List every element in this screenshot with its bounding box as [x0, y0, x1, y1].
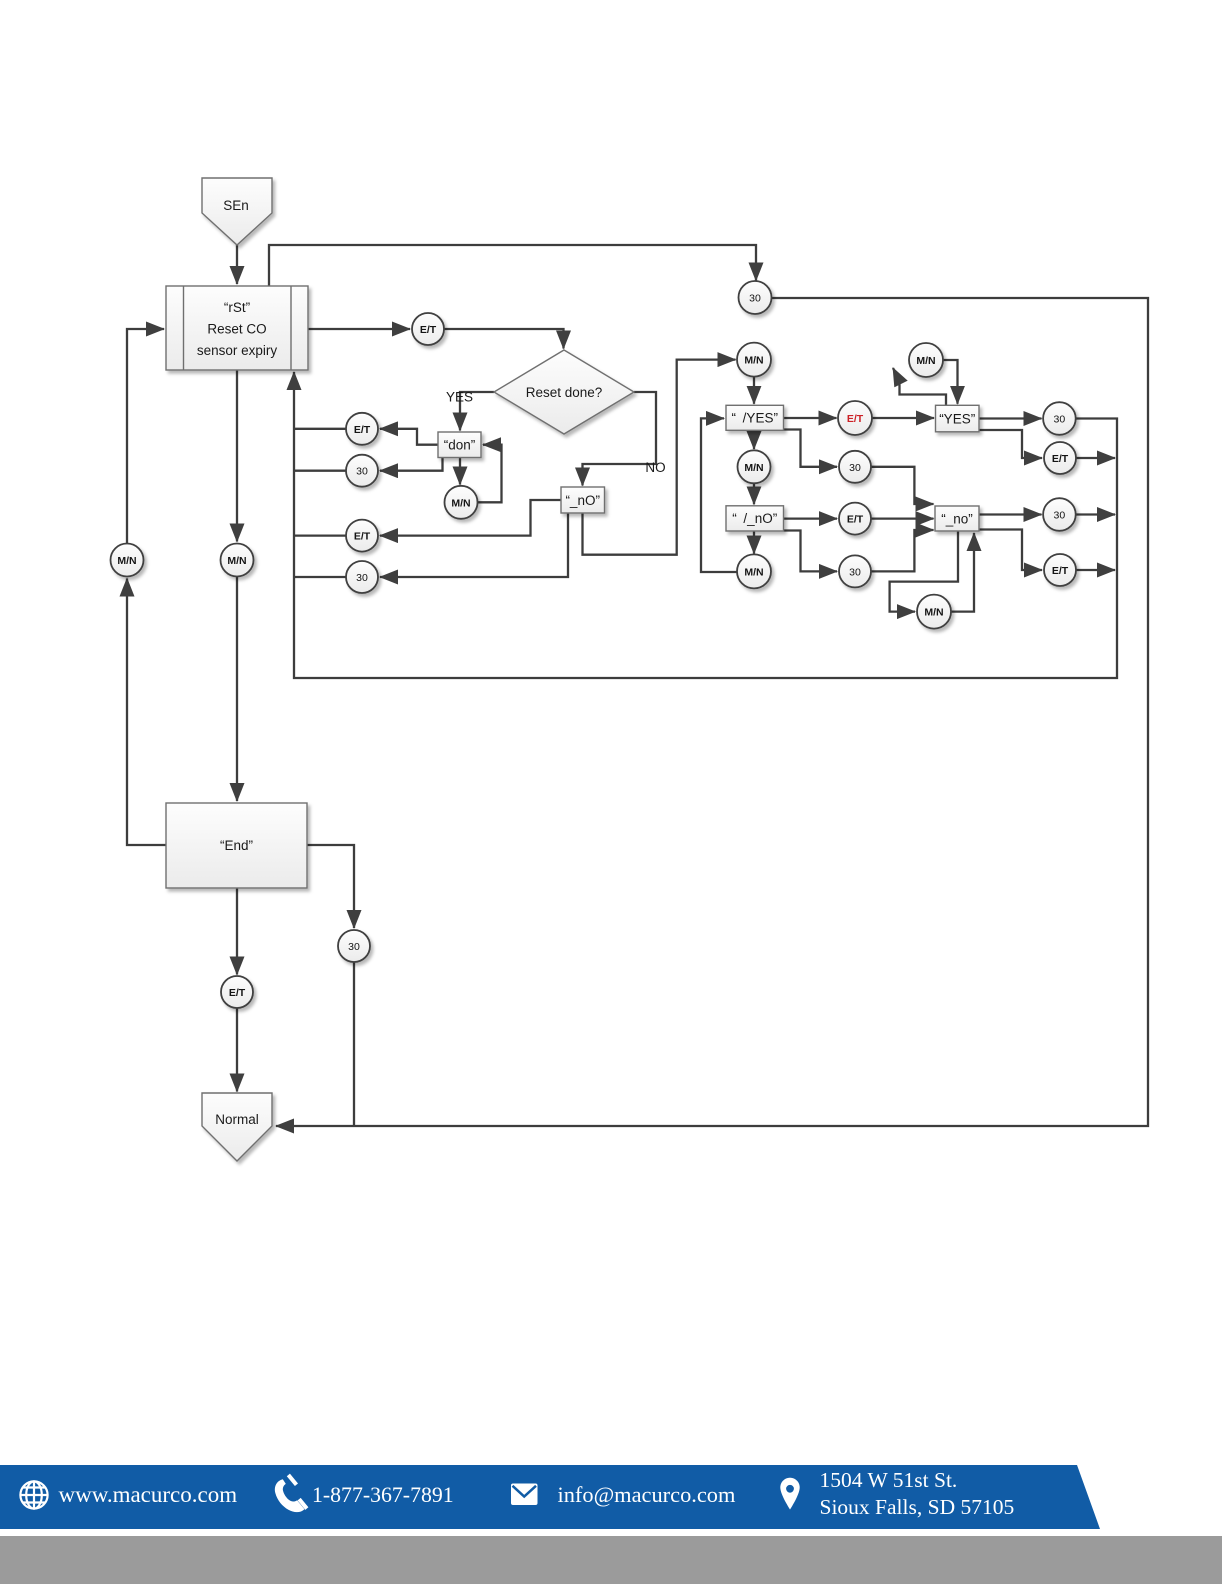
circle 30 below End: [338, 930, 370, 962]
wire YES box top loop to M/N: [893, 368, 946, 405]
circle E/T below End: [221, 976, 253, 1008]
svg-text:30: 30: [1054, 510, 1066, 522]
svg-text:30: 30: [749, 293, 761, 305]
svg-text:“don”: “don”: [444, 438, 476, 453]
wire M/N lower loop up to /YES left: [701, 418, 737, 572]
svg-text:30: 30: [849, 462, 861, 474]
circle E/T after rSt: [412, 313, 444, 345]
envelope icon: [511, 1484, 538, 1506]
svg-text:www.macurco.com: www.macurco.com: [59, 1482, 238, 1507]
box _no: [935, 506, 979, 531]
wire M/N middle column down to End: [236, 577, 238, 801]
svg-text:“_no”: “_no”: [941, 511, 973, 526]
svg-text:sensor expiry: sensor expiry: [197, 343, 278, 358]
decision diamond Reset done?: [494, 350, 634, 434]
location pin icon: [780, 1478, 799, 1510]
wire _no corner to E/T right bottom: [979, 530, 1042, 571]
wire stub rail to E/T upper: [294, 428, 346, 430]
wire YES diamond to don: [460, 392, 494, 431]
wire red E/T to YES box: [872, 417, 934, 419]
circle M/N under don: [445, 486, 478, 519]
svg-text:Sioux Falls, SD 57105: Sioux Falls, SD 57105: [820, 1495, 1015, 1519]
circle M/N above /YES: [737, 343, 771, 377]
svg-text:30: 30: [348, 941, 360, 953]
wire don to E/T upper-left: [380, 429, 438, 445]
svg-text:M/N: M/N: [744, 566, 763, 578]
circle 30 upper left: [346, 455, 378, 487]
svg-text:“YES”: “YES”: [939, 412, 975, 427]
svg-text:info@macurco.com: info@macurco.com: [558, 1482, 736, 1507]
wire stub rail to 30 lower: [294, 576, 346, 578]
circle M/N middle column: [221, 544, 254, 577]
process rSt predefined box: [166, 286, 308, 370]
wire _nO bottom right up to M/N right cluster: [583, 360, 736, 555]
wire _nO to E/T left: [380, 500, 561, 536]
terminator Normal pentagon: [202, 1093, 272, 1161]
circle 30 mid cluster: [839, 451, 871, 483]
circle M/N between /YES and /_nO: [738, 450, 771, 483]
box _nO: [561, 487, 605, 513]
phone icon: [275, 1474, 309, 1513]
wire 30 right along top, down right side, into Normal: [276, 298, 1148, 1126]
wire /_nO corner to 30 lower mid: [784, 531, 838, 572]
circle E/T right cluster bottom: [1044, 554, 1076, 586]
svg-text:30: 30: [356, 466, 368, 478]
svg-text:E/T: E/T: [229, 987, 246, 999]
svg-text:NO: NO: [645, 460, 665, 475]
wire E/T down to Normal: [236, 1008, 238, 1092]
box YES: [936, 405, 980, 432]
svg-text:M/N: M/N: [744, 355, 763, 367]
wire End left up through M/N into rSt: [127, 579, 166, 846]
svg-text:30: 30: [849, 566, 861, 578]
wire M/N loop back to don: [478, 445, 502, 503]
wire stub rail to 30 upper: [294, 470, 346, 472]
wire /YES to red E/T: [784, 417, 837, 419]
circle E/T right cluster: [1044, 442, 1076, 474]
wire E/T mid to _no left: [871, 517, 934, 519]
wire 30 right cluster mid to rail: [1076, 513, 1115, 515]
wire /YES down to M/N mid: [753, 430, 755, 449]
box /YES: [726, 405, 784, 430]
svg-text:“End”: “End”: [220, 838, 253, 853]
wire E/T right cluster to rail: [1076, 457, 1115, 459]
circle 30 lower left: [346, 561, 378, 593]
circle E/T upper left: [346, 413, 378, 445]
wire NO diamond to _nO box: [583, 392, 657, 486]
svg-text:M/N: M/N: [451, 497, 470, 509]
circle M/N under /_nO: [737, 554, 771, 588]
svg-text:E/T: E/T: [847, 413, 864, 425]
circle M/N far left column: [111, 544, 144, 577]
svg-text:M/N: M/N: [916, 355, 935, 367]
svg-text:“_nO”: “_nO”: [565, 493, 600, 508]
wire /_nO down to M/N lower: [753, 531, 755, 554]
svg-text:Normal: Normal: [215, 1112, 259, 1127]
svg-text:E/T: E/T: [1052, 453, 1069, 465]
svg-text:E/T: E/T: [420, 324, 437, 336]
svg-text:SEn: SEn: [223, 198, 249, 213]
svg-text:E/T: E/T: [847, 514, 864, 526]
wire 30 lower mid to _no left bottom: [871, 530, 934, 571]
svg-text:“rSt”: “rSt”: [224, 300, 250, 315]
wire 30 down to Normal horizontal junction: [353, 962, 355, 1127]
circle E/T lower left: [346, 520, 378, 552]
circle E/T mid cluster: [839, 503, 871, 535]
wire /_nO to E/T mid: [784, 517, 838, 519]
wire rSt top loop to 30 circle top right: [269, 245, 756, 287]
circle 30 right cluster top: [1043, 402, 1076, 435]
svg-text:YES: YES: [446, 390, 473, 405]
wire YES box corner to E/T: [979, 430, 1042, 458]
wire M/N down to /YES box: [753, 377, 755, 404]
wire 30 mid to _no left top: [871, 467, 934, 504]
wire YES box to 30: [979, 417, 1042, 419]
svg-text:30: 30: [356, 572, 368, 584]
process End box: [166, 803, 307, 888]
wire _no to 30 right mid: [979, 513, 1042, 515]
svg-text:“ /_nO”: “ /_nO”: [732, 511, 777, 526]
svg-text:M/N: M/N: [227, 555, 246, 567]
wire SEn to rSt: [236, 245, 238, 284]
wire _nO to 30 left lower: [380, 513, 568, 577]
svg-text:30: 30: [1054, 414, 1066, 426]
terminator SEn pentagon: [202, 178, 272, 245]
svg-text:1504 W 51st St.: 1504 W 51st St.: [820, 1468, 958, 1492]
wire M/N left column up into rSt left: [127, 329, 164, 543]
wire End bottom to E/T: [236, 888, 238, 975]
svg-text:M/N: M/N: [117, 555, 136, 567]
svg-text:E/T: E/T: [1052, 565, 1069, 577]
box don: [438, 432, 481, 458]
wire /YES corner to 30 mid: [784, 430, 838, 467]
wire E/T to diamond top: [445, 329, 564, 349]
wire _no bottom to M/N bottom: [890, 532, 958, 612]
globe icon: [20, 1481, 47, 1508]
wire M/N bottom up into _no bottom: [951, 533, 974, 612]
svg-text:“ /YES”: “ /YES”: [731, 411, 778, 426]
wire End right to 30 below: [307, 845, 354, 928]
circle M/N below _no: [917, 595, 951, 629]
box /_nO: [726, 506, 784, 531]
svg-text:Reset done?: Reset done?: [526, 385, 603, 400]
circle 30 right cluster mid: [1043, 498, 1076, 531]
footer gray band: [0, 1536, 1222, 1584]
wire M/N mid down to /_nO: [753, 484, 755, 505]
svg-text:M/N: M/N: [744, 462, 763, 474]
svg-text:M/N: M/N: [924, 607, 943, 619]
wire don down to M/N: [459, 458, 461, 485]
footer blue band: [0, 1465, 1100, 1529]
wire big return rail from 30 right cluster down and back up into rSt bottom: [294, 372, 1117, 678]
svg-text:E/T: E/T: [354, 531, 371, 543]
svg-text:1-877-367-7891: 1-877-367-7891: [312, 1483, 454, 1507]
circle M/N above YES box: [909, 343, 943, 377]
wire stub rail to E/T lower: [294, 534, 346, 536]
wire don to 30 left: [380, 458, 443, 471]
wire M/N down into YES box top: [943, 360, 958, 404]
svg-text:Reset CO: Reset CO: [207, 322, 266, 337]
wire E/T right cluster bottom to rail: [1076, 569, 1115, 571]
circle 30 top right: [739, 281, 772, 314]
wire rSt to E/T: [308, 328, 410, 330]
circle E/T red: [838, 401, 872, 435]
circle 30 mid cluster lower: [839, 555, 871, 587]
wire rSt bottom down to M/N middle column: [236, 370, 238, 542]
svg-text:E/T: E/T: [354, 424, 371, 436]
